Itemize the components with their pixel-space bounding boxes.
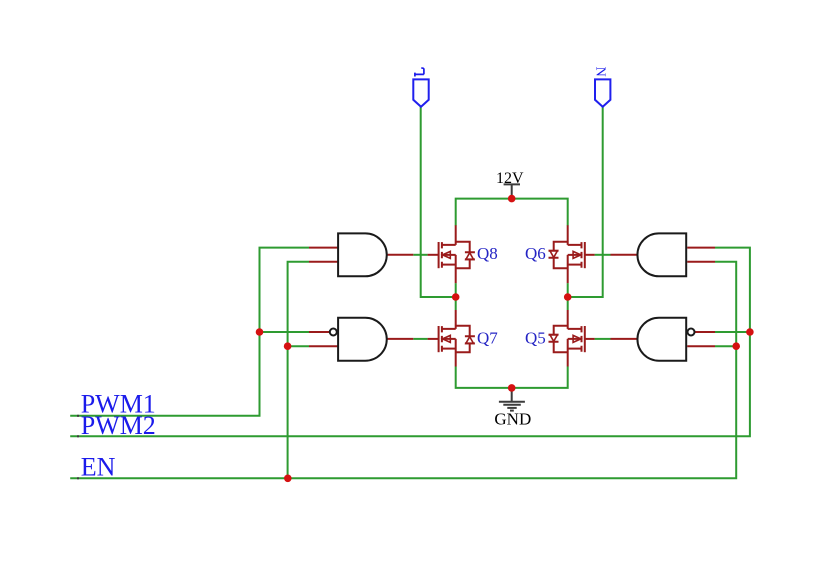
pin U4 input B [687, 345, 715, 347]
junction PWM2 riser / inverted input right [746, 328, 754, 336]
net flag 1 label [414, 68, 424, 76]
wire bottom GND rail [456, 367, 568, 388]
net flag N (right) [595, 79, 610, 106]
pin U3 input A [687, 247, 715, 249]
pin U3 output [611, 254, 639, 256]
junction mid-left node [452, 293, 460, 301]
svg-text:Q5: Q5 [525, 328, 546, 347]
power 12V [504, 184, 520, 198]
wire node to bottom-left gate inverted input [260, 331, 310, 333]
junction GND rail [508, 384, 516, 392]
wire EN riser left to top-left gate input B [288, 262, 309, 479]
transistor Q6 [549, 225, 585, 283]
pin U2 input B [309, 345, 338, 347]
junction mid-right node [564, 293, 572, 301]
wire bottom-left gate output to Q7 gate [413, 338, 427, 340]
end marker EN [77, 477, 79, 479]
pin U1 output [386, 254, 413, 256]
end marker PWM1 [77, 415, 79, 417]
transistor Q7 [439, 310, 475, 367]
AND gate U2 with inverted input (bottom-left) [330, 318, 387, 361]
wire PWM1 to top-left gate input A [70, 248, 309, 416]
wire left-flag to mid-left node [421, 107, 456, 297]
junction EN riser left [284, 342, 292, 350]
junction EN riser right [732, 342, 740, 350]
pin U1 input B [309, 261, 338, 263]
pin Q8 gate [428, 254, 439, 256]
svg-text:GND: GND [494, 410, 531, 429]
wire bottom-right gate output to Q5 gate [595, 338, 611, 340]
wire node to bottom-right gate inverted input [715, 331, 750, 333]
wire right-flag to mid-right node [568, 107, 603, 297]
pin U4 output [611, 338, 639, 340]
pin U1 input A [309, 247, 338, 249]
svg-text:Q8: Q8 [477, 244, 498, 263]
svg-text:PWM2: PWM2 [81, 411, 156, 440]
junction 12V rail [508, 195, 516, 203]
svg-text:Q6: Q6 [525, 244, 546, 263]
net flag 1 (left) [413, 79, 428, 106]
end marker PWM2 [77, 435, 79, 437]
junction PWM1 riser / inverted input left [256, 328, 264, 336]
wire mid-left Q8 source to Q7 drain [455, 283, 457, 310]
pin U4 inverted input A [695, 331, 716, 333]
wire top-left gate output to Q8 gate [413, 254, 427, 256]
wire 12V top rail [456, 199, 568, 226]
pin Q7 gate [428, 338, 439, 340]
svg-text:N: N [592, 67, 607, 77]
pin U2 output [386, 338, 413, 340]
pin Q5 gate [585, 338, 595, 340]
AND gate U4 with inverted input (bottom-right, mirrored) [637, 318, 694, 361]
svg-text:EN: EN [81, 453, 116, 482]
pin U3 input B [687, 261, 715, 263]
svg-text:Q7: Q7 [477, 328, 498, 347]
wire node to bottom-left gate input B [288, 345, 309, 347]
AND gate U3 (top-right, mirrored) [637, 233, 686, 276]
wire PWM2 line to top-right gate input A riser [70, 248, 750, 437]
svg-text:12V: 12V [496, 170, 524, 187]
AND gate U1 (top-left) [338, 233, 387, 276]
transistor Q5 [549, 310, 585, 367]
wire top-right gate output to Q6 gate [595, 254, 611, 256]
wire node to bottom-right gate input B [715, 345, 736, 347]
junction EN left tap [284, 475, 292, 483]
pin Q6 gate [585, 254, 595, 256]
pin U2 inverted input A [309, 331, 330, 333]
ground [499, 388, 525, 411]
transistor Q8 [439, 225, 475, 283]
wire mid-right Q6 source to Q5 drain [567, 283, 569, 310]
wire EN line to right gates input B riser [70, 262, 736, 479]
